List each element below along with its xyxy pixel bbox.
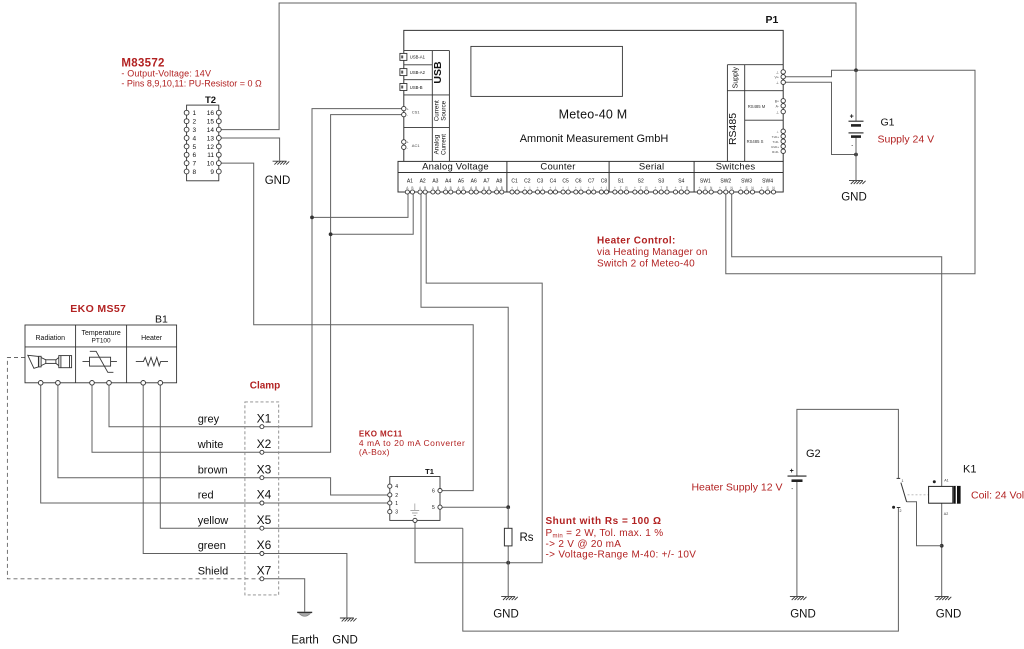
svg-text:+: + [600, 186, 602, 190]
svg-text:via Heating Manager on: via Heating Manager on [597, 247, 708, 258]
svg-text:I: I [555, 186, 556, 190]
svg-text:5: 5 [193, 144, 197, 151]
terminal RS485S pin 2 [781, 134, 785, 138]
svg-text:C2: C2 [524, 178, 531, 184]
T1 pin 2 [388, 493, 392, 497]
svg-text:-: - [407, 147, 408, 151]
svg-text:Ammonit Measurement GmbH: Ammonit Measurement GmbH [520, 133, 669, 145]
svg-text:S: S [767, 186, 769, 190]
junction G1 minus node [854, 153, 858, 157]
svg-text:USB-A2: USB-A2 [410, 70, 426, 75]
svg-text:GND: GND [332, 634, 358, 646]
svg-text:+: + [740, 186, 742, 190]
wire yellow: heater pin to X5 [160, 385, 463, 528]
svg-text:7: 7 [193, 161, 197, 168]
T2 pin 15 [216, 119, 221, 124]
svg-text:-: - [407, 113, 408, 117]
heater resistor symbol [136, 357, 168, 365]
svg-text:Serial: Serial [639, 162, 665, 173]
svg-text:USB-A1: USB-A1 [410, 55, 426, 60]
svg-text:1: 1 [902, 479, 904, 483]
svg-text:SW3: SW3 [741, 178, 752, 184]
svg-text:G2: G2 [806, 448, 821, 460]
svg-text:1: 1 [395, 501, 398, 507]
T2 pin 9 [216, 169, 221, 174]
terminal AC1 pin 2 [402, 145, 406, 149]
T1 pin 1 [388, 501, 392, 505]
svg-text:4: 4 [395, 484, 398, 490]
svg-text:T: T [620, 186, 622, 190]
wire branch node to terminal A1-B [331, 192, 414, 234]
svg-text:+: + [588, 186, 590, 190]
svg-text:13: 13 [207, 135, 215, 142]
wire CS1 pin 1 to clamp X1 [262, 109, 404, 427]
svg-text:(A-Box): (A-Box) [359, 447, 390, 457]
T2 pin 8 [184, 169, 189, 174]
wire brown: radiation pin to X3 and T1 pin 2 [58, 385, 390, 495]
T2 pin 10 [216, 161, 221, 166]
datalogger P1 Meteo-40 box outline [398, 30, 783, 192]
svg-text:GND: GND [493, 609, 519, 621]
svg-text:Heater: Heater [141, 335, 163, 342]
ground at shunt [501, 597, 518, 600]
svg-text:2: 2 [900, 509, 902, 513]
terminal X6 [260, 552, 264, 556]
svg-text:Switches: Switches [716, 162, 756, 173]
svg-text:I: I [529, 186, 530, 190]
svg-text:TxD-: TxD- [773, 140, 780, 144]
terminal AC1 pin 1 [402, 140, 406, 144]
svg-text:Heater Control:: Heater Control: [597, 235, 676, 246]
wire relay contact arm output to ground node [907, 502, 942, 546]
display window of Meteo-40 [471, 46, 623, 96]
USB section box [404, 51, 450, 162]
wire relay contact to clamp X5 (heater feed, bottom run) [463, 508, 899, 632]
terminal Supply gnd 2 [781, 80, 785, 84]
svg-text:USB: USB [432, 61, 444, 84]
terminal RS485M pin 2 [781, 104, 785, 108]
svg-text:3: 3 [395, 510, 398, 516]
ground at K1 [935, 597, 952, 600]
T2 pin 1 [184, 110, 189, 115]
terminal X1 [260, 425, 264, 429]
wire battery G2 minus to ground [796, 481, 798, 596]
mechanical link dashed to coil [908, 494, 929, 496]
terminal X2 [260, 450, 264, 454]
svg-text:RS485: RS485 [727, 113, 739, 145]
svg-text:⊥: ⊥ [776, 130, 779, 134]
svg-text:X1: X1 [257, 411, 272, 425]
svg-text:T: T [640, 186, 642, 190]
svg-text:+: + [850, 113, 854, 120]
earth electrode [297, 612, 312, 616]
internal ground symbol of T1 [410, 504, 419, 516]
wire red: radiation pin to X4 and T1 pin 1 [41, 385, 390, 503]
svg-text:B+: B+ [775, 100, 779, 104]
ground at G2 [790, 597, 807, 600]
svg-text:Counter: Counter [540, 162, 575, 173]
svg-text:8: 8 [193, 169, 197, 176]
T2 pin 2 [184, 119, 189, 124]
svg-text:A2: A2 [420, 178, 426, 184]
svg-text:-: - [851, 143, 853, 149]
svg-text:yellow: yellow [198, 515, 229, 527]
wire T1 bottom pin to shunt bottom node [414, 520, 416, 562]
svg-text:C3: C3 [537, 178, 544, 184]
svg-text:A8: A8 [496, 178, 502, 184]
radiation sensor symbol [28, 355, 72, 368]
svg-text:GND: GND [841, 192, 867, 204]
svg-text:B: B [488, 186, 490, 190]
svg-text:RxD+: RxD+ [771, 145, 779, 149]
svg-text:A-: A- [776, 105, 779, 109]
svg-text:9: 9 [210, 169, 214, 176]
junction coil A2 / contact node [940, 544, 944, 548]
svg-text:Temperature: Temperature [81, 330, 120, 337]
svg-text:G1: G1 [881, 117, 895, 129]
svg-text:EKO MS57: EKO MS57 [70, 303, 126, 315]
svg-text:A1: A1 [944, 478, 948, 482]
svg-text:T1: T1 [425, 467, 434, 476]
svg-text:Switch 2 of Meteo-40: Switch 2 of Meteo-40 [597, 259, 695, 270]
T2 pin 7 [184, 161, 189, 166]
svg-text:Source: Source [441, 100, 448, 120]
svg-text:10: 10 [207, 161, 215, 168]
wire battery G2 plus to relay contact [797, 409, 899, 478]
svg-text:X2: X2 [257, 437, 272, 451]
svg-text:C4: C4 [550, 178, 557, 184]
svg-text:B: B [462, 186, 464, 190]
svg-text:Current: Current [441, 134, 448, 155]
svg-text:+: + [537, 186, 539, 190]
terminal RS485M pin 3 [781, 109, 785, 113]
relay contact K1 (switch) [897, 478, 907, 507]
terminal RS485M pin 1 [781, 99, 785, 103]
svg-text:6: 6 [432, 489, 435, 495]
wire grey: PT100 pin to X1 [109, 385, 262, 427]
T1 pin 4 [388, 484, 392, 488]
svg-text:+: + [790, 468, 794, 475]
terminal PT100 pin 2 [107, 381, 112, 386]
junction G1 plus node [854, 68, 858, 72]
svg-text:Clamp: Clamp [250, 381, 281, 392]
svg-text:X5: X5 [257, 513, 272, 527]
svg-text:T2: T2 [205, 95, 216, 106]
T2 pin 5 [184, 144, 189, 149]
svg-text:2: 2 [395, 493, 398, 499]
svg-text:K1: K1 [963, 464, 976, 476]
svg-text:white: white [197, 439, 224, 451]
svg-text:AC1: AC1 [412, 143, 421, 148]
wire white: PT100 pin to X2 [92, 385, 262, 452]
junction X2/A1 node [329, 232, 333, 236]
svg-text:B: B [411, 186, 413, 190]
T2 pin 6 [184, 152, 189, 157]
svg-text:Pmin = 2 W, Tol. max. 1 %: Pmin = 2 W, Tol. max. 1 % [546, 528, 664, 540]
terminal PT100 pin 1 [90, 381, 95, 386]
wire supply V+ to battery G1 and switch SW2 [726, 70, 975, 273]
svg-text:C7: C7 [588, 178, 595, 184]
node marker dot at coil A1 [933, 480, 936, 483]
wire terminal A2-B to shunt bottom [415, 192, 542, 563]
svg-text:S4: S4 [678, 178, 684, 184]
svg-text:S1: S1 [618, 178, 624, 184]
T1 pin 5 [438, 505, 442, 509]
svg-text:B1: B1 [155, 314, 168, 326]
svg-text:+: + [575, 186, 577, 190]
terminal CS1 pin 1 [402, 106, 406, 110]
T2 pin 11 [216, 152, 221, 157]
svg-text:15: 15 [207, 119, 215, 126]
svg-text:3: 3 [193, 127, 197, 134]
T2 pin 16 [216, 110, 221, 115]
svg-text:V+: V+ [775, 76, 780, 80]
svg-text:+: + [511, 186, 513, 190]
wire battery G1 plus to T2 pin 14 (24V supply, top run) [219, 3, 856, 130]
svg-text:A2: A2 [944, 512, 948, 516]
svg-text:+: + [719, 186, 721, 190]
svg-text:Analog: Analog [434, 134, 441, 154]
ground at G1 [849, 181, 866, 184]
svg-text:-> Voltage-Range M-40: +/- 10V: -> Voltage-Range M-40: +/- 10V [546, 550, 697, 561]
terminal X7 [260, 577, 264, 581]
T2 pin 14 [216, 127, 221, 132]
svg-text:I: I [517, 186, 518, 190]
svg-text:S: S [725, 186, 727, 190]
svg-text:+: + [562, 186, 564, 190]
wire branch node to terminal A1-A [312, 192, 408, 217]
terminal X3 [260, 476, 264, 480]
svg-text:SW4: SW4 [762, 178, 773, 184]
svg-text:Shield: Shield [198, 566, 229, 578]
svg-text:Coil: 24 Volt: Coil: 24 Volt [971, 490, 1024, 502]
svg-text:S: S [746, 186, 748, 190]
svg-text:+: + [634, 186, 636, 190]
thermistor PT100 symbol [83, 351, 117, 372]
svg-text:RxD-: RxD- [772, 150, 779, 154]
connector USB-A1 [400, 53, 407, 60]
svg-text:PT100: PT100 [92, 337, 112, 344]
svg-text:11: 11 [207, 152, 214, 159]
svg-text:C1: C1 [511, 178, 518, 184]
svg-text:2: 2 [193, 119, 197, 126]
svg-text:P1: P1 [766, 14, 779, 26]
svg-text:X3: X3 [257, 462, 272, 476]
svg-text:+: + [675, 186, 677, 190]
svg-text:S3: S3 [658, 178, 664, 184]
svg-text:GND: GND [790, 609, 816, 621]
svg-text:A7: A7 [483, 178, 489, 184]
svg-text:T: T [680, 186, 682, 190]
terminal Supply V+ [781, 75, 785, 79]
svg-text:+: + [654, 186, 656, 190]
svg-text:+: + [698, 186, 700, 190]
svg-text:A6: A6 [471, 178, 477, 184]
T2 pin 12 [216, 144, 221, 149]
terminal radiation pin 1 [38, 381, 43, 386]
svg-text:+: + [614, 186, 616, 190]
svg-text:X7: X7 [257, 564, 272, 578]
resistor Rs (shunt) [504, 528, 512, 546]
wire battery G1 stems and ground [855, 70, 857, 180]
sensor EKO MS57 box B1 [25, 325, 177, 383]
svg-text:RS485 S: RS485 S [747, 139, 764, 144]
svg-text:4: 4 [193, 135, 197, 142]
svg-text:A4: A4 [445, 178, 451, 184]
svg-text:Shunt with Rs = 100 Ω: Shunt with Rs = 100 Ω [546, 516, 662, 527]
terminal CS1 pin 2 [402, 112, 406, 116]
converter T1 box [390, 477, 440, 521]
junction shunt bottom node [506, 561, 510, 565]
svg-text:SW2: SW2 [720, 178, 731, 184]
connector T2 (M83572 plug) [187, 105, 219, 181]
svg-text:S: S [704, 186, 706, 190]
Supply / RS485 section box [727, 65, 783, 162]
wire relay coil A2 to ground [941, 503, 943, 596]
T1 ground pin [413, 518, 417, 522]
terminal Supply gnd 1 [781, 70, 785, 74]
svg-text:C8: C8 [601, 178, 608, 184]
svg-text:+: + [549, 186, 551, 190]
svg-text:⊥: ⊥ [776, 110, 779, 114]
svg-text:+: + [761, 186, 763, 190]
svg-text:B: B [437, 186, 439, 190]
svg-text:grey: grey [198, 413, 220, 425]
svg-text:6: 6 [193, 152, 197, 159]
svg-text:I: I [593, 186, 594, 190]
relay coil K1 [929, 486, 953, 503]
svg-text:A1: A1 [407, 178, 413, 184]
svg-text:I: I [542, 186, 543, 190]
svg-text:I: I [606, 186, 607, 190]
svg-text:S2: S2 [638, 178, 644, 184]
terminal RS485S pin 4 [781, 144, 785, 148]
terminal heater pin 2 [158, 381, 163, 386]
svg-text:Supply 24 V: Supply 24 V [878, 133, 935, 145]
svg-text:RS485 M: RS485 M [748, 104, 766, 109]
wire T2 pin 13 to ground [219, 138, 280, 161]
T2 pin 3 [184, 127, 189, 132]
svg-text:TxD+: TxD+ [772, 135, 779, 139]
svg-text:B: B [475, 186, 477, 190]
svg-text:Supply: Supply [732, 66, 739, 88]
T2 pin 13 [216, 136, 221, 141]
clamp terminal block (dashed) [245, 402, 279, 595]
svg-text:A3: A3 [432, 178, 438, 184]
wire T2 pin 10 to T1 pin 6 [219, 163, 473, 491]
svg-text:Heater Supply 12 V: Heater Supply 12 V [691, 482, 782, 494]
svg-text:+: + [524, 186, 526, 190]
svg-text:T: T [660, 186, 662, 190]
svg-text:1: 1 [193, 110, 197, 117]
battery G1 [849, 121, 864, 136]
junction shunt top node [506, 505, 510, 509]
connector USB-A2 [400, 69, 407, 76]
wire shunt Rs leads and ground [507, 507, 509, 596]
svg-text:X6: X6 [257, 538, 272, 552]
terminal RS485S pin 1 [781, 129, 785, 133]
svg-text:16: 16 [207, 110, 215, 117]
node marker dot at contact terminal 2 [892, 506, 895, 509]
terminal radiation pin 2 [56, 381, 61, 386]
svg-text:12: 12 [207, 144, 215, 151]
svg-text:B: B [501, 186, 503, 190]
svg-text:B: B [450, 186, 452, 190]
svg-text:5: 5 [432, 505, 435, 511]
terminal heater pin 1 [141, 381, 146, 386]
wire CS1 pin 2 to clamp X2 [262, 115, 404, 453]
wire terminal A2-A to shunt top [421, 192, 508, 507]
svg-text:Analog Voltage: Analog Voltage [422, 162, 489, 173]
T1 pin 3 [388, 510, 392, 514]
svg-text:USB-B: USB-B [410, 85, 423, 90]
T2 pin 4 [184, 136, 189, 141]
svg-text:B: B [424, 186, 426, 190]
svg-text:Meteo-40 M: Meteo-40 M [559, 108, 628, 122]
svg-text:- Output-Voltage: 14V: - Output-Voltage: 14V [121, 69, 211, 79]
svg-text:Current: Current [434, 100, 441, 121]
svg-text:I: I [581, 186, 582, 190]
svg-text:C5: C5 [562, 178, 569, 184]
wire green: heater pin to X6 and ground [143, 385, 347, 617]
svg-text:CS1: CS1 [412, 110, 421, 115]
connector USB-B [400, 84, 407, 91]
svg-text:Earth: Earth [291, 634, 319, 646]
terminal X5 [260, 526, 264, 530]
wire shield: X7 to earth [262, 579, 305, 612]
svg-text:- Pins 8,9,10,11: PU-Resistor: - Pins 8,9,10,11: PU-Resistor = 0 Ω [121, 79, 262, 89]
svg-text:green: green [198, 540, 226, 552]
svg-text:GND: GND [265, 175, 291, 187]
ground at X6 [340, 618, 357, 621]
svg-text:+: + [407, 107, 409, 111]
terminal RS485S pin 3 [781, 139, 785, 143]
wire shield dashed from sensor body [7, 358, 259, 579]
battery G2 [788, 476, 807, 481]
svg-text:+: + [407, 141, 409, 145]
junction X1/A1 node [310, 216, 314, 220]
svg-text:Radiation: Radiation [36, 335, 66, 342]
svg-text:red: red [198, 490, 214, 502]
wire switch SW2-C to relay coil K1 [732, 192, 942, 486]
svg-text:X4: X4 [257, 488, 272, 502]
svg-text:Rs: Rs [520, 532, 534, 544]
svg-text:I: I [568, 186, 569, 190]
svg-text:C6: C6 [575, 178, 582, 184]
svg-text:SW1: SW1 [700, 178, 711, 184]
T1 pin 6 [438, 489, 442, 493]
svg-text:14: 14 [207, 127, 215, 134]
svg-text:brown: brown [198, 464, 228, 476]
svg-text:A5: A5 [458, 178, 464, 184]
terminal X4 [260, 501, 264, 505]
terminal RS485S pin 5 [781, 149, 785, 153]
wire T1 pin 5 to shunt top node [440, 506, 508, 508]
svg-text:GND: GND [936, 609, 962, 621]
wire supply ground terminal to battery G1 minus [783, 82, 856, 154]
svg-text:-: - [791, 487, 793, 493]
ground at T2 [273, 161, 290, 164]
